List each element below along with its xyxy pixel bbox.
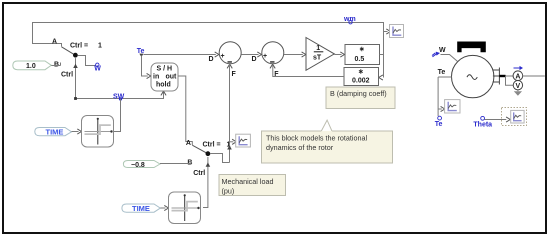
svg-text:Ctrl: Ctrl bbox=[193, 170, 205, 177]
plot icon M2 (Tm) bbox=[236, 134, 251, 147]
svg-text:−0.8: −0.8 bbox=[131, 162, 145, 169]
switch SW2 (A/B selector, Ctrl = 1) bbox=[186, 140, 231, 177]
step block ST2 (timed load signal) bbox=[169, 192, 201, 224]
svg-text:Ctrl =: Ctrl = bbox=[203, 142, 221, 149]
plot icon M4 (Theta, selected) bbox=[502, 108, 527, 126]
ground below voltmeter bbox=[514, 90, 522, 96]
svg-text:(pu): (pu) bbox=[222, 186, 235, 195]
ammeter A bbox=[513, 71, 523, 81]
svg-text:out: out bbox=[166, 74, 178, 81]
node Te (bottom) bbox=[435, 116, 443, 128]
wire constant 1.0 to switch B bbox=[51, 65, 60, 67]
svg-text:This block models the rotation: This block models the rotational bbox=[266, 134, 367, 143]
wire ctrl2 vertical from step block ST2 bbox=[203, 157, 210, 208]
svg-text:1: 1 bbox=[316, 45, 320, 52]
summer SUM2 (D+ F-) bbox=[252, 42, 284, 78]
wire 0.002 output back to SUM2 F input bbox=[273, 66, 344, 77]
wire ammeter to right border bbox=[523, 75, 545, 77]
wire branch to plot icon M3 bbox=[438, 106, 445, 111]
wire S/H out down to switch SW2 A bbox=[178, 76, 192, 145]
svg-text:in: in bbox=[153, 74, 159, 81]
wire multiplier 0.5 output to vertical bus bbox=[380, 54, 384, 56]
wire Theta to plot icon M4 bbox=[485, 117, 511, 122]
svg-text:TIME: TIME bbox=[132, 204, 150, 213]
wire TIME1 to step block bbox=[72, 129, 82, 134]
plot icon M3 (Te) bbox=[445, 100, 460, 113]
wire branch to plot icon M2 bbox=[230, 139, 237, 144]
svg-text:1: 1 bbox=[98, 43, 102, 50]
svg-text:+: + bbox=[221, 53, 225, 60]
sticky note Mechanical load (pu) bbox=[219, 175, 286, 196]
current direction arrow bbox=[514, 66, 524, 70]
svg-text:A: A bbox=[515, 74, 520, 81]
node wm bbox=[343, 16, 356, 24]
node Te (top, torque signal) bbox=[137, 48, 145, 57]
wire TIME2 to step block ST2 bbox=[160, 205, 168, 210]
multiplier 0.002 (damping) bbox=[344, 68, 379, 86]
machine G1 (synchronous machine) bbox=[452, 55, 494, 97]
machine W input port bbox=[432, 47, 457, 61]
svg-text:1.0: 1.0 bbox=[26, 63, 36, 70]
wire Te to summer SUM1 D input bbox=[144, 52, 219, 57]
switch SW1 (A/B selector, Ctrl = 1) bbox=[52, 39, 102, 79]
svg-text:D: D bbox=[252, 56, 257, 63]
svg-text:Te: Te bbox=[435, 121, 443, 128]
summer SUM1 (D+ F-) bbox=[209, 42, 242, 78]
svg-text:Mechanical load: Mechanical load bbox=[222, 177, 274, 186]
sticky note rotor dynamics callout bbox=[262, 120, 393, 163]
svg-text:dynamics of the rotor: dynamics of the rotor bbox=[266, 143, 334, 152]
wire branch to voltmeter bbox=[506, 76, 514, 85]
wire Te down to S/H in bbox=[142, 56, 151, 79]
multiplier 0.5 (inertia gain) bbox=[345, 45, 380, 65]
svg-text:sT: sT bbox=[313, 55, 322, 62]
svg-text:Te: Te bbox=[438, 69, 446, 76]
svg-text:B (damping coeff): B (damping coeff) bbox=[330, 89, 387, 98]
machine Te input port bbox=[438, 69, 452, 77]
signal source TIME 2 bbox=[122, 204, 160, 213]
node Theta bbox=[473, 116, 492, 128]
node SW bbox=[113, 94, 125, 101]
svg-text:Theta: Theta bbox=[473, 122, 492, 129]
wire Te node up to machine bbox=[437, 77, 439, 116]
svg-text:A: A bbox=[186, 140, 191, 147]
voltmeter V bbox=[513, 81, 522, 91]
wire ctrl1 vertical bbox=[73, 58, 78, 98]
svg-text:V: V bbox=[516, 83, 521, 90]
svg-text:TIME: TIME bbox=[46, 127, 64, 136]
wire switch1 output to node W bbox=[78, 56, 96, 66]
svg-text:D: D bbox=[209, 56, 214, 63]
wire integrator to multiplier 0.5 bbox=[334, 52, 344, 57]
wire Tm vertical bus to SUM1 F input bbox=[227, 64, 232, 163]
node W bbox=[94, 63, 101, 72]
svg-text:Ctrl: Ctrl bbox=[61, 72, 73, 79]
wire SW2 output to Tm bus bbox=[210, 154, 229, 163]
svg-text:S / H: S / H bbox=[157, 66, 173, 73]
constant 1.0 bbox=[13, 61, 52, 70]
wire branch to plot icon wm bbox=[384, 29, 391, 34]
wire machine to ammeter bbox=[506, 75, 514, 77]
integrator 1/sT bbox=[306, 38, 334, 71]
step block ST1 (timed switch signal) bbox=[82, 116, 114, 148]
svg-text:wm: wm bbox=[343, 16, 356, 23]
svg-text:Ctrl =: Ctrl = bbox=[70, 43, 88, 50]
svg-text:hold: hold bbox=[156, 82, 171, 89]
svg-text:W: W bbox=[439, 47, 446, 54]
plot icon M1 (wm) bbox=[390, 25, 404, 38]
svg-text:0.002: 0.002 bbox=[352, 78, 370, 85]
wire SUM2 to integrator bbox=[284, 52, 306, 57]
svg-text:SW: SW bbox=[113, 94, 125, 101]
sticky note B (damping coeff) bbox=[326, 87, 395, 109]
svg-text:A: A bbox=[52, 39, 57, 46]
signal source TIME 1 bbox=[35, 127, 72, 136]
machine stator terminals bbox=[493, 68, 506, 85]
wire -0.8 to SW2 B input bbox=[160, 163, 191, 165]
wire step1 output up to SW wire bbox=[114, 99, 121, 132]
svg-text:F: F bbox=[232, 71, 237, 78]
constant -0.8 bbox=[123, 161, 160, 169]
svg-text:+: + bbox=[263, 53, 267, 60]
svg-text:W: W bbox=[94, 66, 101, 73]
sample/hold block U1 bbox=[151, 63, 178, 91]
svg-text:0.5: 0.5 bbox=[355, 56, 365, 63]
wire SW horizontal to S/H hold bbox=[74, 91, 166, 100]
machine top bar (stator graphic) bbox=[457, 42, 486, 53]
wire arrow into 0.002 right side bbox=[379, 75, 383, 80]
wire wm feedback (top horizontal from multiplier bus to switch A) bbox=[33, 23, 384, 78]
wire SUM1 to SUM2 bbox=[241, 52, 261, 57]
